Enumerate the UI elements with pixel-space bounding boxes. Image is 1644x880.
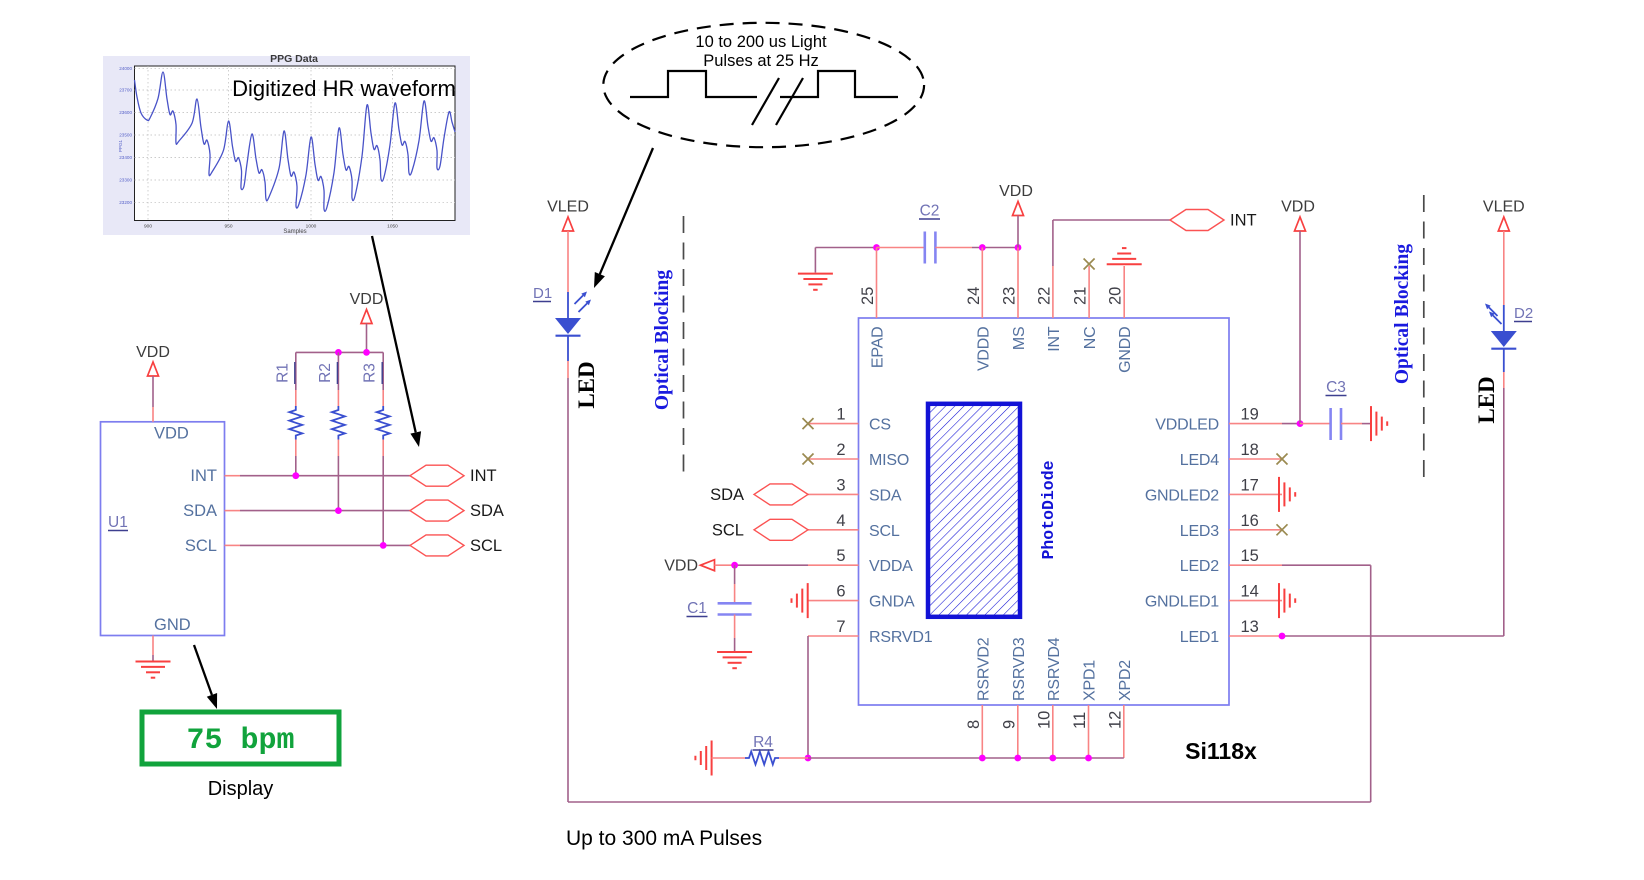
junction SCL/R [380, 542, 387, 549]
wire VDD down [1299, 231, 1301, 424]
label R1 [274, 362, 295, 384]
svg-text:LED1: LED1 [1180, 629, 1220, 646]
pin 5 stub [808, 564, 859, 566]
svg-text:XPD2: XPD2 [1117, 660, 1134, 701]
pin 23 stub [1017, 248, 1019, 319]
capacitor C1 [718, 565, 752, 651]
svg-text:4: 4 [836, 512, 845, 530]
junction pin24 [979, 244, 986, 251]
junction pin23 [1015, 244, 1022, 251]
connector SCL (Si118x) [754, 519, 808, 540]
pin 19 stub [1229, 423, 1282, 425]
svg-text:LED4: LED4 [1180, 452, 1220, 469]
svg-text:GND: GND [154, 616, 191, 634]
ground (R4) [695, 741, 711, 776]
svg-text:7: 7 [836, 618, 845, 636]
wire pin13 LED1 [1282, 635, 1504, 637]
svg-text:D1: D1 [533, 285, 552, 302]
svg-text:Samples: Samples [283, 229, 306, 235]
svg-text:NC: NC [1082, 327, 1099, 350]
svg-text:C2: C2 [920, 203, 940, 220]
svg-text:GNDD: GNDD [1117, 327, 1134, 373]
wire pin22 to INT [1052, 220, 1054, 266]
svg-text:GNDA: GNDA [869, 594, 915, 611]
connector INT (top) [1170, 210, 1224, 231]
svg-text:950: 950 [224, 224, 232, 230]
svg-text:VDDA: VDDA [869, 558, 913, 575]
wire bottom LED loop [568, 801, 1371, 803]
svg-text:RSRVD2: RSRVD2 [975, 637, 992, 701]
svg-text:VDD: VDD [154, 425, 189, 443]
svg-text:LED: LED [1474, 376, 1499, 423]
svg-text:SCL: SCL [869, 523, 900, 540]
svg-text:23400: 23400 [119, 155, 132, 160]
label R3 [362, 362, 383, 384]
pin 2 stub [808, 458, 859, 460]
svg-text:XPD1: XPD1 [1082, 660, 1099, 701]
svg-text:PPG1: PPG1 [118, 139, 123, 152]
svg-text:13: 13 [1241, 618, 1259, 636]
svg-text:GNDLED1: GNDLED1 [1145, 594, 1219, 611]
resistor R1 [289, 352, 302, 475]
capacitor C2 [925, 232, 936, 264]
label U1 [108, 514, 128, 531]
junction bottom rail [1085, 755, 1092, 762]
svg-text:EPAD: EPAD [870, 327, 887, 369]
svg-text:VDD: VDD [136, 344, 170, 361]
svg-text:U1: U1 [108, 514, 128, 531]
svg-text:18: 18 [1241, 441, 1259, 459]
svg-text:GNDLED2: GNDLED2 [1145, 487, 1219, 504]
svg-text:9: 9 [1000, 720, 1018, 729]
wire gnd to R4 [712, 757, 745, 759]
power VDD (U1) [136, 344, 170, 376]
svg-text:23200: 23200 [119, 200, 132, 205]
pin 6 stub [808, 600, 859, 602]
pin 3 stub [808, 493, 859, 495]
pin 17 stub [1229, 493, 1282, 495]
LED D2 [1485, 304, 1517, 373]
power VLED (D1) [547, 199, 589, 232]
svg-text:VDD: VDD [1281, 199, 1315, 216]
svg-text:PhotoDiode: PhotoDiode [1039, 460, 1058, 559]
svg-text:1050: 1050 [387, 224, 398, 230]
arrow from ellipse to LED D1 [594, 148, 653, 288]
optical blocking dashed line (left) [683, 216, 685, 474]
svg-text:SDA: SDA [470, 502, 504, 520]
junction bottom rail [979, 755, 986, 762]
svg-text:11: 11 [1071, 712, 1089, 729]
wire VLED to D2 [1503, 231, 1505, 305]
svg-text:8: 8 [965, 720, 983, 729]
wire D1 cathode down [567, 361, 569, 378]
junction pin13 [1279, 633, 1286, 640]
pin 11 stub [1088, 705, 1090, 758]
svg-text:SDA: SDA [183, 502, 217, 520]
svg-text:LED2: LED2 [1180, 558, 1220, 575]
wire C3 to gnd [1341, 423, 1362, 425]
junction INT/R [292, 472, 299, 479]
ground (pin14) [1279, 583, 1295, 618]
pin 25 stub [876, 248, 878, 319]
svg-text:INT: INT [470, 467, 497, 485]
LED D1 [555, 292, 591, 362]
svg-text:10: 10 [1035, 711, 1053, 729]
svg-text:900: 900 [144, 224, 152, 230]
svg-text:VDD: VDD [350, 291, 384, 308]
svg-text:Display: Display [208, 778, 274, 800]
pin 21 stub [1088, 266, 1090, 318]
wire VDD to rail [366, 324, 368, 353]
callout ellipse: 10 to 200 us light pulses at 25 Hz [603, 23, 924, 147]
svg-text:CS: CS [869, 417, 891, 434]
svg-text:VDD: VDD [664, 558, 698, 575]
svg-text:R4: R4 [753, 734, 773, 751]
pin 1 stub [808, 423, 859, 425]
pin 9 stub [1017, 705, 1019, 758]
svg-text:24000: 24000 [119, 66, 132, 71]
PPG data chart [103, 53, 470, 235]
wire to C2 left [877, 247, 925, 249]
svg-text:3: 3 [836, 476, 845, 494]
power VDD (pin23) [999, 183, 1033, 216]
no-connect X pin1 [803, 418, 814, 429]
wire C2 right [935, 247, 972, 249]
svg-text:23300: 23300 [119, 178, 132, 183]
svg-text:VDD: VDD [999, 183, 1033, 200]
label R4 [753, 734, 774, 751]
svg-text:16: 16 [1241, 512, 1259, 530]
wire U1 SDA net [225, 510, 411, 512]
svg-text:Up to 300 mA Pulses: Up to 300 mA Pulses [566, 827, 762, 850]
svg-text:VDDD: VDDD [975, 327, 992, 372]
pin 20 stub [1123, 266, 1125, 318]
svg-text:20: 20 [1107, 287, 1125, 305]
svg-text:R1: R1 [274, 363, 291, 383]
svg-text:SCL: SCL [470, 537, 502, 555]
wire U1 SCL net [225, 544, 411, 546]
svg-text:C3: C3 [1326, 379, 1346, 396]
connector INT [410, 465, 464, 486]
ground (pin6 GNDA) [792, 583, 808, 618]
no-connect X pin2 [803, 454, 814, 465]
wire VDD to pin23 [1017, 216, 1019, 248]
label C1 [687, 600, 708, 617]
connector SDA (Si118x) [754, 484, 808, 505]
junction C1 [731, 562, 738, 569]
svg-text:LED3: LED3 [1180, 523, 1220, 540]
label D2 [1514, 305, 1533, 322]
svg-text:Optical Blocking: Optical Blocking [652, 270, 673, 411]
resistor R2 [332, 352, 345, 510]
svg-text:23: 23 [1001, 287, 1019, 305]
svg-text:15: 15 [1241, 547, 1259, 565]
connector SCL [410, 535, 464, 556]
svg-text:VDDLED: VDDLED [1155, 417, 1219, 434]
svg-text:6: 6 [836, 583, 845, 601]
ground (U1) [136, 662, 171, 678]
svg-text:INT: INT [190, 467, 217, 485]
svg-text:24: 24 [965, 287, 983, 305]
resistor R3 [377, 352, 390, 545]
no-connect X pin18 [1277, 454, 1288, 465]
wire resistor top rail [296, 351, 383, 353]
wire U1 to ground [152, 636, 154, 656]
svg-text:Si118x: Si118x [1185, 738, 1257, 764]
wire R4 to rail [779, 757, 808, 759]
svg-text:D2: D2 [1514, 305, 1533, 322]
svg-text:Optical Blocking: Optical Blocking [1392, 244, 1413, 385]
connector SDA [410, 500, 464, 521]
svg-text:75 bpm: 75 bpm [186, 724, 294, 758]
optical blocking dashed line (right) [1423, 195, 1425, 478]
svg-text:2: 2 [836, 441, 845, 459]
display box [142, 712, 339, 764]
svg-text:25: 25 [859, 287, 877, 305]
pin 14 stub [1229, 600, 1282, 602]
svg-text:23700: 23700 [119, 88, 132, 93]
svg-text:10 to 200 us Light: 10 to 200 us Light [695, 33, 827, 51]
power VDD (pin19) [1281, 199, 1315, 232]
label C2 [919, 203, 940, 220]
pin 13 stub [1229, 635, 1282, 637]
wire bottom rail [808, 757, 1124, 759]
IC Si118x body [859, 318, 1230, 705]
ground (C1) [717, 652, 752, 668]
svg-text:LED: LED [574, 361, 599, 408]
svg-text:1000: 1000 [306, 224, 317, 230]
svg-text:SCL: SCL [712, 522, 744, 540]
svg-text:VLED: VLED [1483, 199, 1525, 216]
ground (C3) [1371, 406, 1387, 441]
svg-text:SDA: SDA [710, 486, 744, 504]
IC U1 (host MCU block) [101, 422, 225, 636]
svg-text:23600: 23600 [119, 110, 132, 115]
svg-text:MS: MS [1011, 327, 1028, 351]
label C3 [1326, 379, 1347, 396]
junction SDA/R [335, 507, 342, 514]
svg-text:1: 1 [836, 406, 845, 424]
svg-text:21: 21 [1072, 287, 1090, 305]
junction pin19/VDD [1297, 420, 1304, 427]
svg-text:R3: R3 [362, 363, 379, 383]
svg-text:17: 17 [1241, 476, 1259, 494]
power VDD (pull-ups) [350, 291, 384, 324]
pin 8 stub [981, 705, 983, 758]
label D1 [533, 285, 552, 302]
photodiode symbol (hatched) [928, 404, 1020, 617]
label R2 [317, 362, 338, 384]
pin 10 stub [1052, 705, 1054, 758]
junction bottom rail [1049, 755, 1056, 762]
svg-text:14: 14 [1241, 583, 1259, 601]
junction rail/R2 [335, 349, 342, 356]
svg-text:VLED: VLED [547, 199, 589, 216]
svg-text:INT: INT [1046, 326, 1063, 352]
junction rail/VDD [363, 349, 370, 356]
wire pin19 [1282, 423, 1300, 425]
arrow from chart to INT net [372, 236, 421, 447]
wire D2 cathode down [1503, 372, 1505, 388]
ground (pin17) [1279, 477, 1295, 512]
svg-text:RSRVD3: RSRVD3 [1011, 637, 1028, 701]
junction bottom rail [1014, 755, 1021, 762]
pin 22 stub [1052, 266, 1054, 318]
arrow from U1 to display [194, 645, 217, 709]
wire pin15 LED2 loop [1282, 564, 1371, 566]
svg-text:INT: INT [1230, 212, 1257, 230]
svg-text:19: 19 [1241, 406, 1259, 424]
wire ground to C2 [815, 247, 876, 249]
junction R4 rail [805, 755, 812, 762]
power VDD (pin5) [664, 558, 714, 575]
junction pin25 [873, 244, 880, 251]
wire pin7 to R4 rail [807, 636, 809, 758]
wire to C3 [1300, 423, 1330, 425]
ground (pin20, flipped) [1107, 248, 1142, 264]
wire VLED to D1 [567, 231, 569, 292]
wire VDD to pin5 [715, 564, 735, 566]
pin 16 stub [1229, 529, 1282, 531]
svg-text:RSRVD1: RSRVD1 [869, 629, 933, 646]
svg-text:MISO: MISO [869, 452, 909, 469]
resistor R4 [745, 752, 779, 765]
svg-text:C1: C1 [687, 600, 707, 617]
pin 15 stub [1229, 564, 1282, 566]
ground (C2) [798, 248, 833, 290]
pin 4 stub [808, 529, 859, 531]
svg-text:SCL: SCL [185, 537, 217, 555]
svg-text:SDA: SDA [869, 487, 902, 504]
svg-text:RSRVD4: RSRVD4 [1046, 637, 1063, 701]
svg-text:PPG Data: PPG Data [270, 53, 318, 65]
wire VDD to U1 [152, 376, 154, 407]
svg-text:Pulses at 25 Hz: Pulses at 25 Hz [703, 52, 819, 70]
pin 12 stub [1123, 705, 1125, 758]
pin 24 stub [981, 248, 983, 319]
svg-text:5: 5 [836, 547, 845, 565]
svg-text:12: 12 [1106, 711, 1124, 729]
pin 7 stub [808, 635, 859, 637]
svg-text:22: 22 [1035, 287, 1053, 305]
capacitor C3 [1331, 408, 1341, 440]
no-connect X pin21 [1084, 259, 1095, 270]
wire U1 INT net [225, 475, 411, 477]
no-connect X pin16 [1277, 524, 1288, 535]
svg-text:Digitized HR waveform: Digitized HR waveform [232, 76, 456, 101]
svg-text:R2: R2 [317, 363, 334, 383]
pin 18 stub [1229, 458, 1282, 460]
svg-text:23500: 23500 [119, 133, 132, 138]
power VLED (D2) [1483, 199, 1525, 232]
